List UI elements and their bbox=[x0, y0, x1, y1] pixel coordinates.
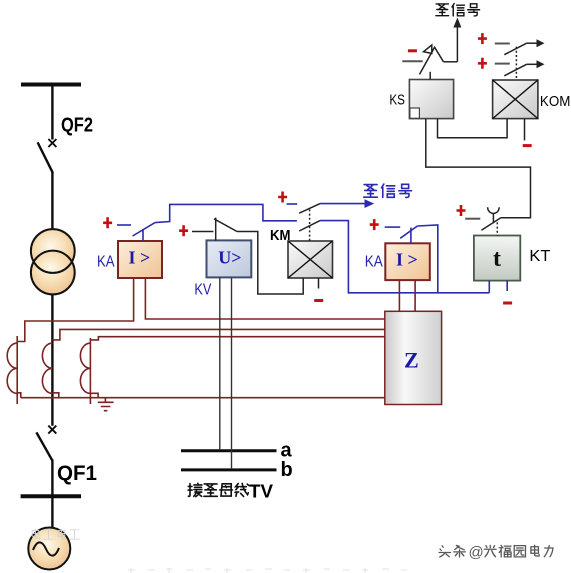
svg-text:KT: KT bbox=[529, 248, 550, 265]
svg-text:QF1: QF1 bbox=[57, 462, 97, 485]
svg-text:b: b bbox=[281, 459, 293, 481]
svg-text:KV: KV bbox=[194, 282, 211, 299]
svg-text:I >: I > bbox=[129, 248, 151, 268]
svg-text:KA: KA bbox=[365, 254, 383, 271]
svg-text:t: t bbox=[493, 246, 501, 272]
svg-text:KS: KS bbox=[389, 92, 405, 109]
svg-text:U>: U> bbox=[218, 248, 241, 268]
svg-text:KA: KA bbox=[97, 254, 115, 271]
svg-text:a: a bbox=[281, 440, 293, 462]
svg-text:KM: KM bbox=[270, 228, 291, 244]
svg-text:KOM: KOM bbox=[540, 93, 571, 110]
svg-text:QF2: QF2 bbox=[61, 115, 93, 137]
svg-text:Z: Z bbox=[404, 348, 419, 373]
svg-text:@: @ bbox=[469, 544, 484, 561]
svg-text:I >: I > bbox=[396, 250, 418, 270]
svg-text:TV: TV bbox=[249, 482, 273, 502]
